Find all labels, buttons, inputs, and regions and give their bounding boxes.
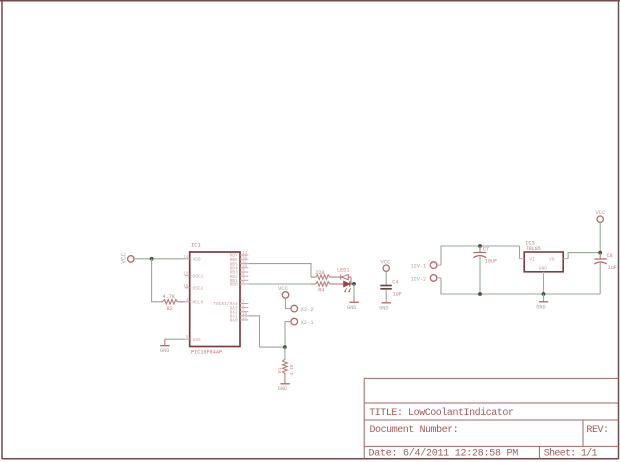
svg-text:TITLE: LowCoolantIndicator: TITLE: LowCoolantIndicator: [369, 407, 514, 419]
title block frame: [364, 378, 618, 458]
wire VCC to C4: [385, 271, 387, 285]
svg-text:LED1: LED1: [337, 268, 349, 274]
title block text document/rev: [370, 424, 609, 436]
node LED cathode junction: [352, 282, 356, 286]
IC IC1 PIC16F84AP: [190, 252, 240, 347]
svg-text:4.7K: 4.7K: [163, 294, 176, 300]
supply VCC left: [120, 252, 134, 263]
svg-text:220: 220: [315, 270, 324, 276]
wire VCC down to C8: [599, 222, 601, 252]
svg-text:16: 16: [183, 273, 188, 277]
svg-text:GND: GND: [347, 305, 356, 311]
svg-text:GND: GND: [278, 386, 287, 392]
svg-text:MCLR: MCLR: [193, 300, 204, 306]
svg-text:Date: 6/4/2011 12:28:58 PM: Date: 6/4/2011 12:28:58 PM: [369, 448, 519, 460]
node R1 junction: [283, 345, 287, 349]
svg-text:GND: GND: [379, 305, 388, 311]
svg-text:R4: R4: [318, 288, 324, 294]
svg-text:VCC: VCC: [278, 285, 289, 292]
svg-text:VCC: VCC: [596, 209, 607, 216]
ground GND (R1): [278, 384, 290, 392]
IC1 left pin names: [193, 257, 204, 343]
ground GND (78L05): [536, 294, 548, 311]
resistor R4: [311, 282, 344, 287]
svg-text:X2-1: X2-1: [301, 319, 315, 326]
title block text sheet: [544, 448, 598, 460]
svg-text:VSS: VSS: [193, 337, 201, 343]
IC1 left pin numbers: [183, 256, 188, 340]
svg-text:IC1: IC1: [191, 242, 202, 249]
title block text date/sheet: [369, 448, 519, 460]
wire GND to VSS: [165, 338, 185, 340]
svg-text:10uF: 10uF: [485, 259, 497, 265]
svg-text:PIC16F84AP: PIC16F84AP: [191, 349, 222, 355]
wire VCC to VDD: [134, 258, 185, 260]
node C7 bottom: [478, 292, 482, 296]
regulator IC3 78L05: [524, 252, 563, 272]
svg-text:Sheet: 1/1: Sheet: 1/1: [544, 448, 598, 460]
capacitor C7 10uF: [473, 246, 497, 294]
wire node to R1: [284, 347, 286, 359]
supply VCC (X2): [278, 285, 289, 298]
svg-text:GND: GND: [536, 305, 545, 311]
IC1 right pin stubs: [240, 255, 248, 320]
wire RA1 to node: [248, 316, 284, 347]
IC1 right pin names: [213, 253, 238, 324]
svg-text:12: 12: [242, 256, 247, 260]
svg-text:OSC1: OSC1: [193, 273, 204, 279]
wire junction down to R2: [152, 259, 161, 302]
svg-text:Document Number:: Document Number:: [370, 424, 459, 436]
wire VCC to X2-2: [286, 298, 291, 309]
svg-text:OSC2: OSC2: [193, 286, 204, 292]
IC1 right pin numbers: [242, 252, 247, 321]
svg-text:17: 17: [242, 317, 247, 321]
wire RB0 to R4: [248, 283, 311, 285]
svg-text:4.7K: 4.7K: [289, 364, 295, 375]
wire X2-1 down to node: [285, 322, 291, 348]
svg-text:RB0: RB0: [230, 282, 238, 288]
node junction VCC/R2: [150, 257, 154, 261]
svg-text:VCC: VCC: [120, 252, 127, 263]
node C8 top: [598, 251, 602, 255]
wire IC3 GND pin to bottom rail: [543, 277, 545, 295]
supply VCC (C4): [381, 259, 392, 272]
wire junction down to GND: [353, 284, 355, 297]
ground GND (C4): [379, 303, 391, 312]
node C7 top: [478, 244, 482, 248]
resistor R3 220: [311, 275, 341, 280]
wire X1-1 up to top rail: [441, 246, 520, 265]
capacitor C8 1uF: [594, 253, 617, 294]
title block text: TITLE row: [369, 407, 514, 419]
connector X2-1: [291, 318, 314, 326]
svg-text:14: 14: [183, 256, 188, 260]
wire X1-2 down to bottom rail: [441, 278, 600, 294]
wire top rail into VI: [519, 246, 521, 259]
node GND stem: [542, 292, 546, 296]
svg-text:C8: C8: [607, 253, 613, 259]
svg-text:78L05: 78L05: [526, 246, 541, 252]
svg-text:GND: GND: [160, 348, 169, 354]
pin stubs IC3: [520, 259, 569, 277]
supply VCC (right): [596, 209, 607, 222]
svg-text:VDD: VDD: [193, 257, 201, 263]
wire RB5 to R3: [248, 264, 311, 278]
svg-text:12V-1: 12V-1: [411, 264, 427, 270]
svg-text:VO: VO: [549, 256, 555, 262]
svg-text:R1: R1: [277, 367, 283, 373]
svg-text:C4: C4: [392, 280, 398, 286]
connector X1-1 (12V-1): [411, 262, 442, 270]
svg-text:R2: R2: [167, 306, 173, 312]
svg-text:1uF: 1uF: [608, 265, 617, 271]
IC1 left pin stubs: [185, 259, 190, 339]
svg-text:REV:: REV:: [586, 425, 608, 436]
svg-text:GND: GND: [539, 265, 548, 271]
connector X1-2 (12V-2): [411, 275, 442, 283]
wire C4 to GND: [385, 290, 387, 303]
svg-text:12V-2: 12V-2: [411, 277, 427, 283]
resistor R1 (vertical): [283, 359, 288, 383]
svg-text:C7: C7: [483, 247, 489, 253]
svg-text:15: 15: [183, 285, 188, 289]
wire VO to C8 node: [568, 253, 600, 259]
connector X2-2: [291, 305, 314, 313]
ground GND (LED): [347, 297, 359, 311]
resistor R2 4.7K: [161, 300, 185, 305]
svg-text:RA0: RA0: [230, 318, 238, 324]
ground GND (left of PIC): [160, 339, 170, 354]
LED arrows: [345, 288, 351, 291]
svg-text:1uF: 1uF: [393, 292, 402, 298]
svg-text:X2-2: X2-2: [301, 306, 314, 313]
svg-text:VI: VI: [530, 256, 536, 262]
capacitor C4 1uF: [380, 286, 392, 289]
